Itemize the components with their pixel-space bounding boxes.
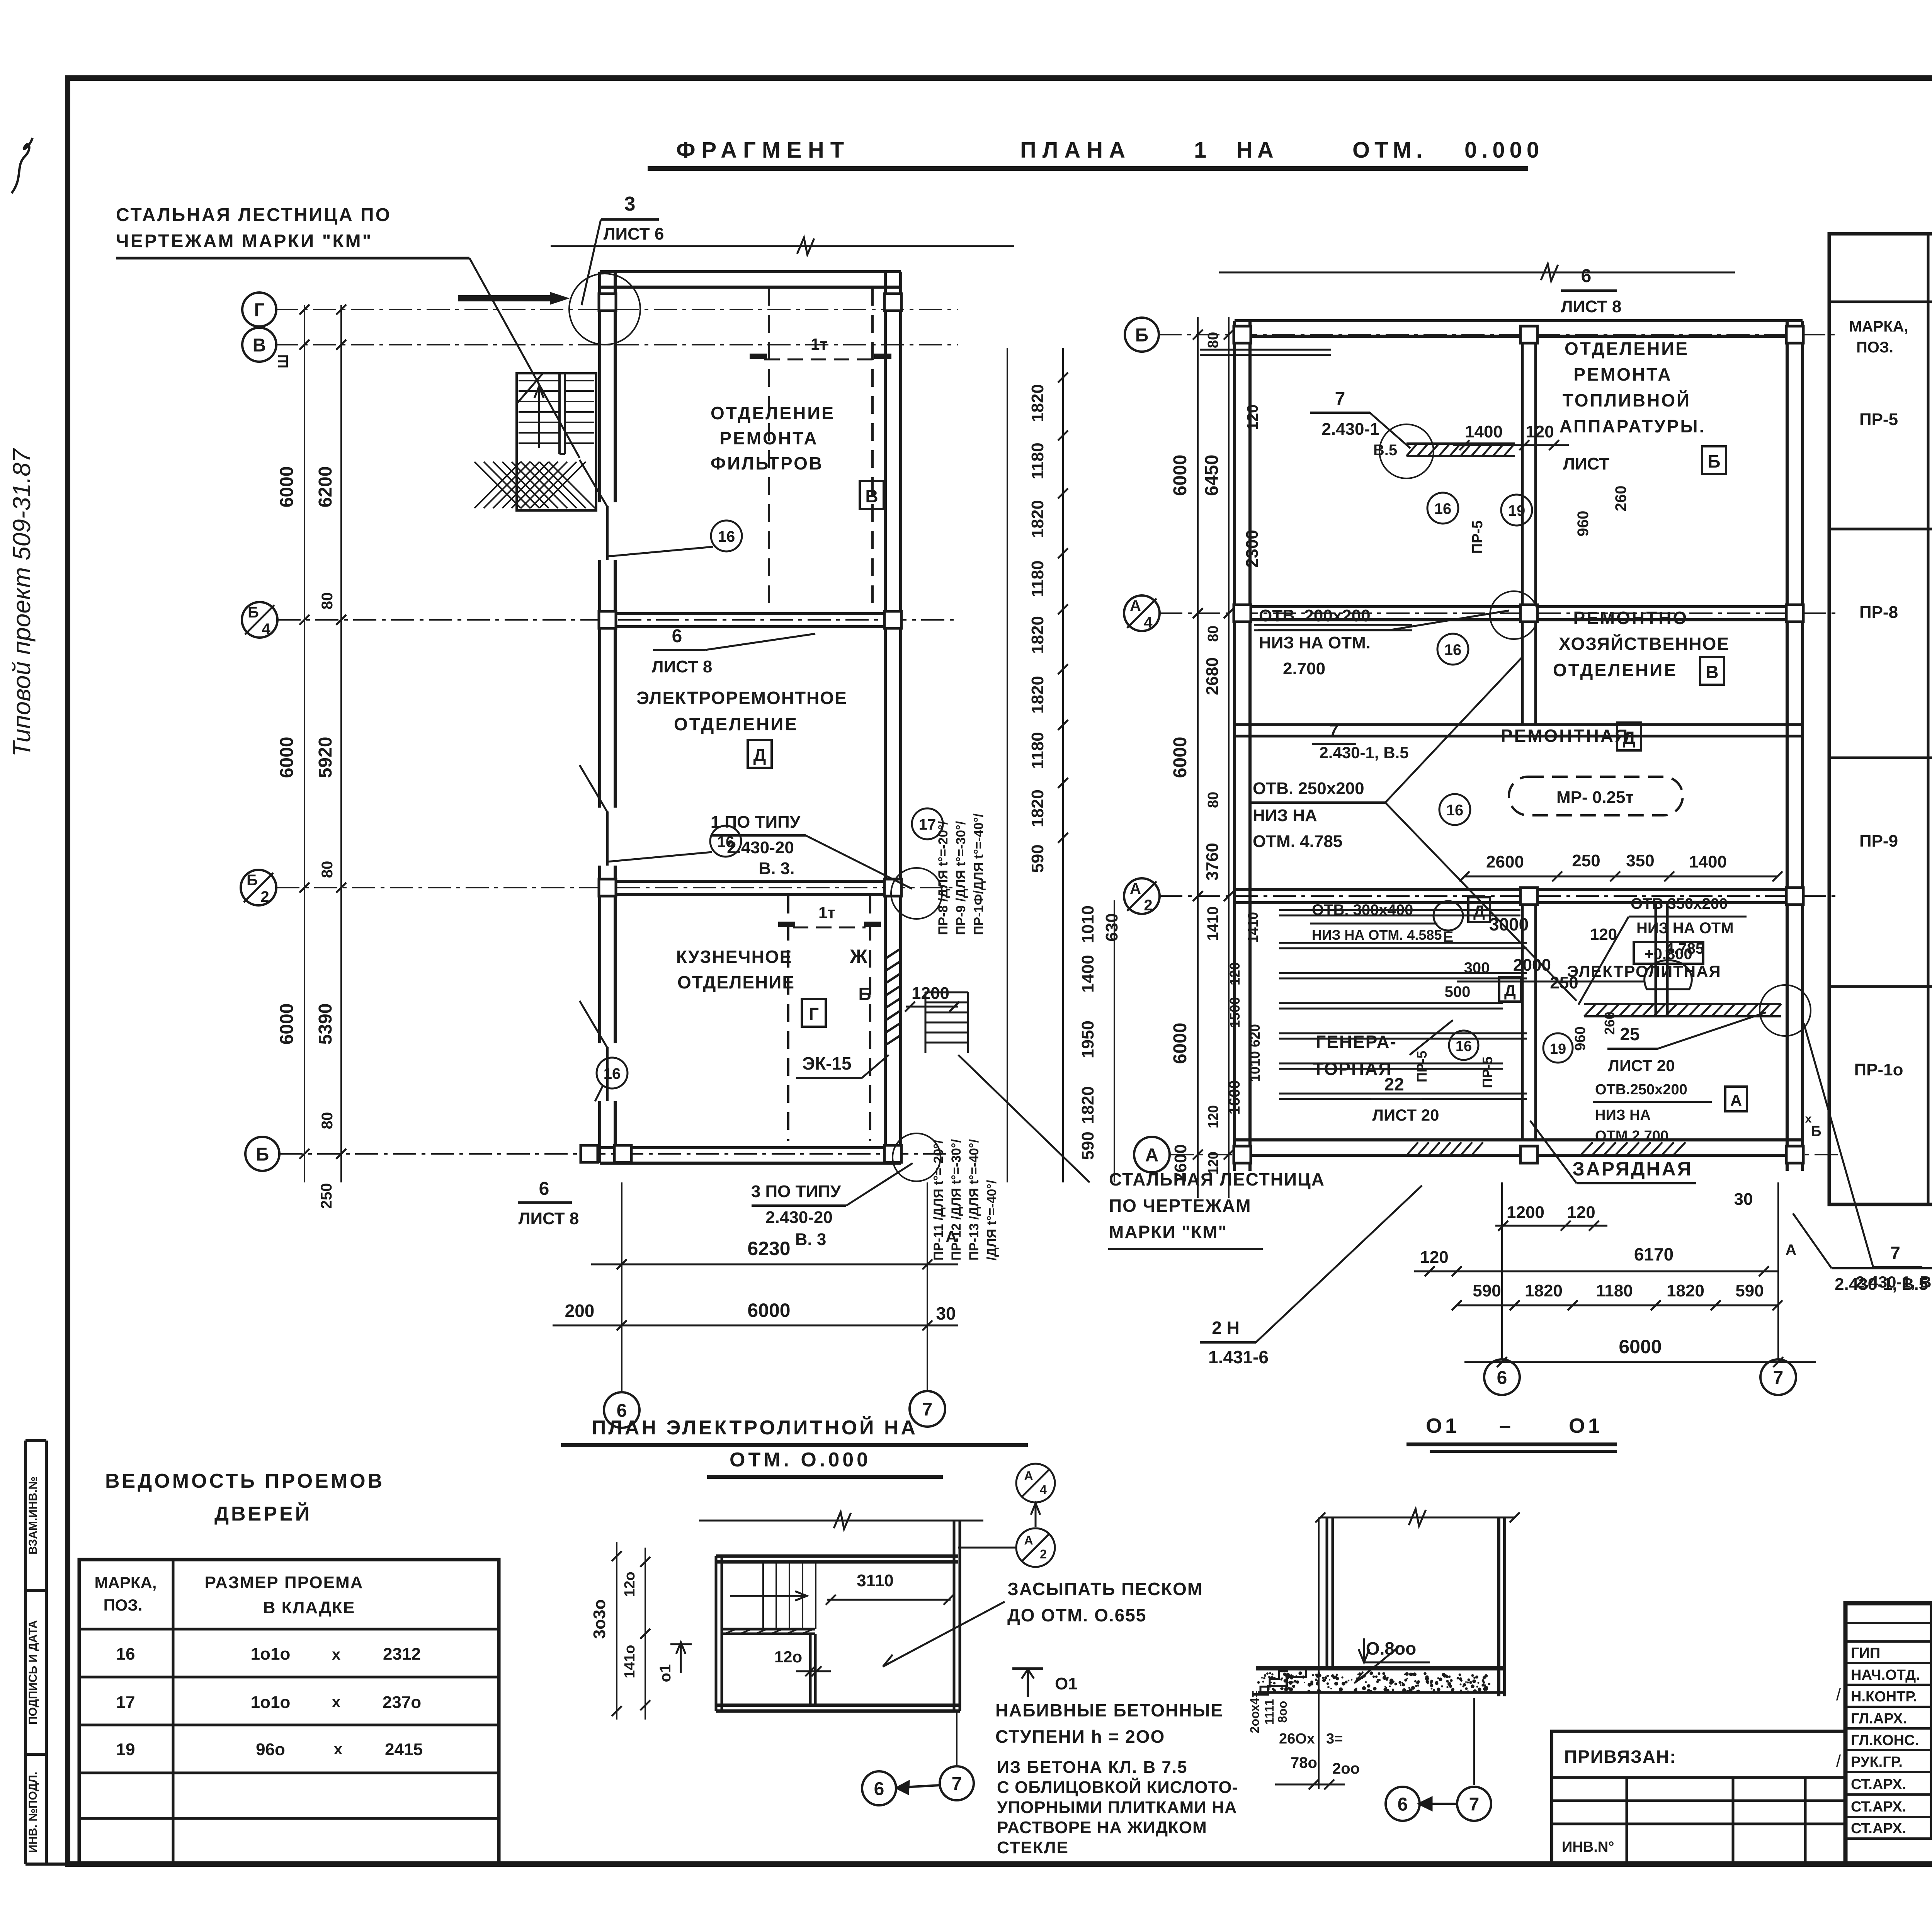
svg-text:Б: Б xyxy=(1708,451,1720,471)
boxed D second lower xyxy=(1499,977,1521,1002)
svg-text:В: В xyxy=(1706,662,1718,682)
svg-text:350: 350 xyxy=(1626,851,1654,870)
svg-text:2415: 2415 xyxy=(385,1740,423,1759)
section vertical dim line xyxy=(1318,1517,1320,1789)
svg-text:2 Н: 2 Н xyxy=(1212,1318,1240,1338)
svg-text:2: 2 xyxy=(1144,897,1152,914)
svg-text:78о: 78о xyxy=(1291,1754,1317,1771)
svg-text:2000: 2000 xyxy=(1513,956,1551,975)
svg-text:КУЗНЕЧНОЕ: КУЗНЕЧНОЕ xyxy=(676,947,793,967)
door circle 16 generator xyxy=(1449,1031,1478,1060)
svg-text:РЕМОНТНАЯ: РЕМОНТНАЯ xyxy=(1501,726,1629,746)
svg-text:1410: 1410 xyxy=(1245,912,1261,943)
svg-text:ТОРНАЯ: ТОРНАЯ xyxy=(1313,1059,1392,1079)
svg-text:х: х xyxy=(1805,1112,1812,1125)
leader from zasypat text to plan xyxy=(885,1602,1005,1665)
svg-text:12о: 12о xyxy=(774,1648,802,1666)
door table frame xyxy=(79,1560,499,1864)
svg-text:3=: 3= xyxy=(1326,1731,1343,1747)
svg-text:ПЛАНА: ПЛАНА xyxy=(1020,138,1131,163)
leader from callout to wall xyxy=(846,1163,913,1206)
svg-text:1820: 1820 xyxy=(1028,676,1047,714)
svg-text:ЛИСТ 20: ЛИСТ 20 xyxy=(1608,1056,1675,1075)
axis circle V xyxy=(242,328,276,362)
svg-text:ЛИСТ 8: ЛИСТ 8 xyxy=(1561,297,1622,316)
svg-text:ЧЕРТЕЖАМ МАРКИ "КМ": ЧЕРТЕЖАМ МАРКИ "КМ" xyxy=(116,231,372,252)
svg-text:2оо: 2оо xyxy=(1332,1760,1360,1777)
axis line A2 right plan xyxy=(1159,895,1839,897)
level mark +0.800 boxed xyxy=(1634,942,1703,964)
svg-text:16: 16 xyxy=(1444,641,1462,658)
leader otv350 to wall xyxy=(1578,917,1629,1005)
electro plan stair treads xyxy=(763,1562,816,1629)
svg-text:7: 7 xyxy=(1773,1368,1784,1388)
room letter box G xyxy=(802,999,826,1027)
svg-text:2оох4=: 2оох4= xyxy=(1248,1691,1262,1733)
svg-text:ГИП: ГИП xyxy=(1851,1645,1880,1661)
electro plan outer walls xyxy=(716,1555,958,1558)
svg-text:ИНВ. №ПОДЛ.: ИНВ. №ПОДЛ. xyxy=(27,1772,39,1853)
svg-text:16: 16 xyxy=(604,1065,621,1082)
electro left dims xyxy=(616,1542,617,1720)
svg-text:В. 3: В. 3 xyxy=(795,1230,827,1249)
privyazan table frame xyxy=(1552,1731,1845,1864)
svg-text:6: 6 xyxy=(874,1779,884,1799)
svg-text:1820: 1820 xyxy=(1667,1281,1704,1300)
section mark A4 circle xyxy=(1016,1464,1055,1502)
leader from otv callout xyxy=(1391,611,1509,630)
svg-text:1т: 1т xyxy=(818,903,835,922)
detail circle at right wall B2 xyxy=(891,868,942,919)
detail circle right end electro wall xyxy=(1760,985,1811,1036)
svg-text:6: 6 xyxy=(672,626,682,646)
room letter box D right plan xyxy=(1617,723,1641,750)
svg-text:30: 30 xyxy=(936,1303,956,1323)
svg-text:Б: Б xyxy=(247,872,258,889)
svg-text:3000: 3000 xyxy=(1489,914,1529,934)
svg-text:17: 17 xyxy=(116,1693,135,1712)
room letter box V xyxy=(860,481,884,509)
svg-text:120: 120 xyxy=(1420,1248,1448,1267)
section stepped left profile xyxy=(1252,1668,1327,1694)
svg-text:8оо: 8оо xyxy=(1276,1701,1289,1723)
svg-text:ПОЗ.: ПОЗ. xyxy=(1856,339,1893,356)
leader from callout to right wall xyxy=(806,835,912,889)
svg-text:ТОПЛИВНОЙ: ТОПЛИВНОЙ xyxy=(1563,390,1691,410)
stair pit hatched area xyxy=(474,462,595,508)
svg-text:Д: Д xyxy=(753,745,766,765)
left plan interior wall on axis B4 xyxy=(600,612,901,615)
svg-text:2300: 2300 xyxy=(1243,530,1262,568)
svg-text:СТЕКЛЕ: СТЕКЛЕ xyxy=(997,1838,1069,1857)
svg-text:ОТМ.2.700: ОТМ.2.700 xyxy=(1595,1128,1668,1144)
detail circle bottom right wall xyxy=(893,1133,940,1181)
section mark A2 circle xyxy=(1016,1528,1055,1567)
svg-text:80: 80 xyxy=(319,1112,336,1129)
bottom dim line 6000 left plan xyxy=(553,1325,958,1327)
svg-text:НИЗ НА ОТМ: НИЗ НА ОТМ xyxy=(1636,920,1734,937)
svg-text:590: 590 xyxy=(1028,844,1047,873)
svg-text:6000: 6000 xyxy=(747,1300,790,1321)
svg-text:1410: 1410 xyxy=(1204,907,1221,941)
svg-text:Г: Г xyxy=(254,300,264,320)
svg-text:1180: 1180 xyxy=(1596,1281,1633,1300)
svg-text:1950: 1950 xyxy=(1078,1021,1097,1058)
leader generator room xyxy=(1410,1020,1453,1055)
right plan interior wall below A4 xyxy=(1235,723,1803,726)
lintel table 1 frame xyxy=(1829,234,1932,1204)
svg-text:1400: 1400 xyxy=(1689,852,1727,871)
svg-text:960: 960 xyxy=(1575,511,1592,537)
stair treads right flight xyxy=(565,381,594,443)
stair divider wall xyxy=(558,373,561,454)
svg-text:6000: 6000 xyxy=(1619,1336,1662,1357)
svg-text:80: 80 xyxy=(1205,792,1221,808)
svg-text:Д: Д xyxy=(1473,902,1485,920)
svg-text:С ОБЛИЦОВКОЙ КИСЛОТО-: С ОБЛИЦОВКОЙ КИСЛОТО- xyxy=(997,1777,1238,1797)
section stair steps small xyxy=(1252,1671,1288,1694)
svg-text:1180: 1180 xyxy=(1028,442,1047,479)
leader from section mark into plan xyxy=(958,1547,1016,1549)
svg-text:19: 19 xyxy=(1508,502,1526,519)
svg-text:СТ.АРХ.: СТ.АРХ. xyxy=(1851,1799,1906,1815)
svg-text:120: 120 xyxy=(1590,925,1617,943)
svg-text:РЕМОНТА: РЕМОНТА xyxy=(719,428,818,448)
svg-text:ОТМ. О.000: ОТМ. О.000 xyxy=(730,1449,871,1471)
dashed partition room V xyxy=(768,288,770,612)
svg-text:СТ.АРХ.: СТ.АРХ. xyxy=(1851,1820,1906,1837)
detail circle at stair landing xyxy=(569,274,640,345)
svg-text:1010: 1010 xyxy=(1078,905,1097,943)
leader zaryadnaya xyxy=(1530,1121,1577,1183)
svg-text:7: 7 xyxy=(922,1399,933,1420)
left dim lines right plan xyxy=(1197,317,1199,1198)
svg-text:26Ох: 26Ох xyxy=(1279,1731,1315,1747)
svg-text:80: 80 xyxy=(1205,332,1221,348)
partition electrolitnaya room xyxy=(1655,903,1657,1016)
svg-text:500: 500 xyxy=(1445,983,1471,1000)
svg-text:3о3о: 3о3о xyxy=(590,1599,609,1639)
svg-text:2.430-20: 2.430-20 xyxy=(765,1208,833,1227)
axis bubble 7 left plan xyxy=(910,1391,945,1427)
axis circle A over 2 xyxy=(1124,878,1160,914)
svg-text:ИЗ БЕТОНА КЛ. В 7.5: ИЗ БЕТОНА КЛ. В 7.5 xyxy=(997,1758,1188,1777)
room letter box D xyxy=(748,740,772,768)
svg-text:96о: 96о xyxy=(256,1740,285,1759)
svg-text:0.000: 0.000 xyxy=(1464,138,1544,163)
svg-text:УПОРНЫМИ ПЛИТКАМИ НА: УПОРНЫМИ ПЛИТКАМИ НА xyxy=(997,1798,1237,1817)
svg-text:Ж: Ж xyxy=(849,946,867,967)
svg-text:/ДЛЯ t°=-40°/: /ДЛЯ t°=-40°/ xyxy=(985,1180,999,1260)
svg-text:3110: 3110 xyxy=(857,1571,893,1590)
svg-text:590: 590 xyxy=(1735,1281,1764,1300)
svg-text:ПР-5: ПР-5 xyxy=(1480,1056,1495,1088)
svg-text:1180: 1180 xyxy=(1028,560,1047,597)
svg-text:НИЗ НА: НИЗ НА xyxy=(1253,806,1317,825)
svg-text:4: 4 xyxy=(1040,1483,1047,1497)
svg-text:о1: о1 xyxy=(657,1664,674,1682)
right plan central vertical partition lower xyxy=(1521,903,1524,1140)
svg-text:2312: 2312 xyxy=(383,1645,421,1664)
svg-text:МАРКА,: МАРКА, xyxy=(1849,318,1908,335)
svg-text:НАЧ.ОТД.: НАЧ.ОТД. xyxy=(1851,1667,1920,1683)
svg-text:2600: 2600 xyxy=(1486,852,1524,871)
svg-text:ГЛ.КОНС.: ГЛ.КОНС. xyxy=(1851,1732,1919,1749)
svg-text:4: 4 xyxy=(1144,614,1153,631)
svg-text:А: А xyxy=(1730,1091,1742,1109)
left dimension line for axis spacing xyxy=(304,305,305,1182)
double lines below A4 xyxy=(1254,624,1412,626)
mark T01 symbol xyxy=(1012,1667,1043,1670)
outside stair right of forge room xyxy=(925,992,968,1043)
door gaps in left wall xyxy=(597,502,618,560)
svg-text:ОТВ. 200х200: ОТВ. 200х200 xyxy=(1259,606,1371,625)
svg-text:ПР-8 /ДЛЯ t°=-20°/: ПР-8 /ДЛЯ t°=-20°/ xyxy=(936,821,951,935)
left plan right wall xyxy=(884,272,887,1163)
section top dim line xyxy=(1320,1517,1515,1519)
svg-text:ПР-9: ПР-9 xyxy=(1859,832,1898,850)
svg-text:Ш: Ш xyxy=(275,354,291,368)
svg-text:1: 1 xyxy=(1194,138,1206,163)
svg-text:237о: 237о xyxy=(383,1693,421,1712)
leader from far right callout xyxy=(1804,1023,1873,1267)
svg-text:1 ПО ТИПУ: 1 ПО ТИПУ xyxy=(711,813,801,832)
detail circle at A4 partition xyxy=(1490,591,1538,639)
svg-text:6200: 6200 xyxy=(315,466,336,508)
svg-text:1820: 1820 xyxy=(1028,616,1047,654)
svg-text:О1: О1 xyxy=(1569,1414,1603,1437)
svg-text:1820: 1820 xyxy=(1078,1086,1097,1124)
svg-text:141о: 141о xyxy=(622,1645,638,1679)
section right wall xyxy=(1497,1517,1500,1696)
svg-text:2.430-20: 2.430-20 xyxy=(727,838,794,857)
svg-text:630: 630 xyxy=(1102,913,1121,941)
svg-text:120: 120 xyxy=(1526,422,1554,441)
leader from 2n to plan corner xyxy=(1256,1186,1422,1342)
svg-text:О1: О1 xyxy=(1426,1414,1460,1437)
svg-text:6450: 6450 xyxy=(1202,455,1222,496)
leader from note to stair xyxy=(469,258,580,458)
svg-text:2600: 2600 xyxy=(1171,1144,1190,1182)
axis line V xyxy=(275,344,958,345)
double lines above A2 room xyxy=(1279,909,1520,911)
arrow between section marks xyxy=(1035,1505,1037,1527)
leader into sand fill xyxy=(1356,1647,1399,1682)
leader 25 to detail circle xyxy=(1658,1012,1766,1049)
extension to circles electro xyxy=(956,1713,957,1765)
svg-text:1820: 1820 xyxy=(1028,500,1047,538)
svg-text:ПР-5: ПР-5 xyxy=(1414,1051,1430,1082)
svg-text:МАРКА,: МАРКА, xyxy=(95,1573,157,1592)
upper double lines near axis B xyxy=(1200,349,1331,351)
svg-text:80: 80 xyxy=(319,861,336,878)
boxed A label xyxy=(1725,1087,1747,1111)
svg-text:5390: 5390 xyxy=(315,1004,336,1045)
svg-text:НАБИВНЫЕ БЕТОННЫЕ: НАБИВНЫЕ БЕТОННЫЕ xyxy=(995,1700,1223,1720)
svg-text:120: 120 xyxy=(1567,1203,1595,1222)
svg-text:ФИЛЬТРОВ: ФИЛЬТРОВ xyxy=(711,453,823,473)
right plan right wall xyxy=(1786,321,1789,1171)
monorail 1t dashed in forge room xyxy=(793,927,866,929)
title block row lines left part xyxy=(1845,1622,1932,1624)
svg-text:ЭК-15: ЭК-15 xyxy=(802,1053,851,1073)
note underline xyxy=(116,257,469,260)
leader lines from door circles to doors xyxy=(607,547,713,556)
stair corner triangle xyxy=(517,373,543,404)
svg-text:ЭЛЕКТРОРЕМОНТНОЕ: ЭЛЕКТРОРЕМОНТНОЕ xyxy=(636,688,847,708)
svg-text:ПР-13 /ДЛЯ t°=-40°/: ПР-13 /ДЛЯ t°=-40°/ xyxy=(967,1139,981,1260)
svg-text:ДО ОТМ. О.655: ДО ОТМ. О.655 xyxy=(1007,1605,1146,1625)
svg-text:6000: 6000 xyxy=(277,1004,297,1045)
svg-text:2: 2 xyxy=(1040,1547,1047,1561)
louvre lines generator room xyxy=(1279,943,1527,1099)
svg-text:260: 260 xyxy=(1612,486,1629,512)
svg-text:ОТМ. 4.785: ОТМ. 4.785 xyxy=(1253,832,1342,851)
stairwell outside top-left xyxy=(517,373,596,510)
svg-text:СТАЛЬНАЯ ЛЕСТНИЦА ПО: СТАЛЬНАЯ ЛЕСТНИЦА ПО xyxy=(116,205,391,225)
svg-text:х: х xyxy=(334,1741,342,1758)
axis bubble 6 left plan xyxy=(604,1392,639,1428)
right plan central vertical partition upper xyxy=(1521,336,1524,725)
svg-text:7: 7 xyxy=(952,1774,962,1794)
svg-text:120: 120 xyxy=(1205,1105,1221,1128)
svg-text:960: 960 xyxy=(1572,1026,1588,1051)
svg-text:ОТВ. 300х400: ОТВ. 300х400 xyxy=(1312,902,1413,919)
svg-text:ОТДЕЛЕНИЕ: ОТДЕЛЕНИЕ xyxy=(711,403,835,423)
svg-text:6000: 6000 xyxy=(1170,1023,1190,1064)
door circle 16 middle right plan xyxy=(1439,794,1470,825)
svg-text:ПОДПИСЬ И ДАТА: ПОДПИСЬ И ДАТА xyxy=(27,1620,39,1725)
svg-text:3 ПО ТИПУ: 3 ПО ТИПУ xyxy=(751,1182,841,1201)
axis line G xyxy=(275,309,958,310)
svg-text:ПР-5: ПР-5 xyxy=(1469,520,1486,554)
svg-text:6000: 6000 xyxy=(1170,455,1190,496)
left margin stamp strip xyxy=(24,1441,27,1864)
right-side dimension chain lines of left plan xyxy=(1007,348,1008,1182)
circled 7 under section xyxy=(1457,1787,1491,1821)
svg-text:ПРИВЯЗАН:: ПРИВЯЗАН: xyxy=(1564,1747,1677,1767)
svg-text:6170: 6170 xyxy=(1634,1244,1673,1264)
svg-text:7: 7 xyxy=(1469,1794,1480,1815)
svg-text:ОТВ. 250х200: ОТВ. 250х200 xyxy=(1253,779,1364,798)
svg-text:Б: Б xyxy=(858,984,871,1004)
svg-text:5920: 5920 xyxy=(315,737,336,778)
svg-text:250: 250 xyxy=(318,1183,335,1209)
electro interior wall vertical xyxy=(809,1634,812,1705)
svg-text:200: 200 xyxy=(565,1301,595,1321)
svg-text:Г: Г xyxy=(809,1004,819,1024)
svg-text:ОТДЕЛЕНИЕ: ОТДЕЛЕНИЕ xyxy=(1565,338,1689,359)
axis circle A over 4 xyxy=(1124,595,1160,631)
svg-text:А: А xyxy=(1130,597,1141,614)
axis circle B over 4 xyxy=(242,602,277,638)
right plan interior wall A4 xyxy=(1235,605,1803,608)
extension line to circle 7 section xyxy=(1473,1698,1475,1785)
svg-text:16: 16 xyxy=(1434,500,1452,517)
svg-text:6: 6 xyxy=(539,1179,549,1199)
svg-text:3760: 3760 xyxy=(1203,843,1222,881)
door circle 16 lower area xyxy=(1434,901,1463,930)
svg-text:16: 16 xyxy=(1456,1038,1472,1055)
svg-text:6: 6 xyxy=(1497,1368,1507,1388)
svg-text:6000: 6000 xyxy=(277,466,297,508)
svg-text:2.430-1: 2.430-1 xyxy=(1321,420,1379,439)
svg-text:АППАРАТУРЫ.: АППАРАТУРЫ. xyxy=(1560,416,1706,436)
svg-text:НИЗ НА ОТМ. 4.585: НИЗ НА ОТМ. 4.585 xyxy=(1312,927,1442,943)
svg-text:12о: 12о xyxy=(622,1572,638,1597)
svg-text:/: / xyxy=(1836,1685,1841,1704)
svg-text:ЗАСЫПАТЬ ПЕСКОМ: ЗАСЫПАТЬ ПЕСКОМ xyxy=(1007,1579,1203,1599)
svg-text:16: 16 xyxy=(718,528,735,545)
svg-text:В: В xyxy=(253,335,266,356)
svg-text:Б: Б xyxy=(1811,1123,1821,1140)
door mark circle 16 lower xyxy=(597,1058,628,1089)
handwritten squiggle top left margin xyxy=(12,138,32,193)
svg-text:ОТДЕЛЕНИЕ: ОТДЕЛЕНИЕ xyxy=(677,972,795,992)
arrow 7 to 6 under section xyxy=(1421,1803,1458,1805)
svg-text:16: 16 xyxy=(116,1645,135,1664)
svg-text:ВЗАМ.ИНВ.№: ВЗАМ.ИНВ.№ xyxy=(27,1476,39,1555)
svg-text:А: А xyxy=(1024,1469,1033,1483)
hatched pier segment on right wall xyxy=(885,949,901,1045)
detail circle at lintel PR-5 xyxy=(1379,424,1434,478)
axis circle B xyxy=(245,1137,279,1171)
svg-text:7: 7 xyxy=(1335,389,1345,409)
boxed D label lower xyxy=(1468,897,1490,922)
leader from callout 3 xyxy=(582,219,601,305)
svg-text:РЕМОНТА: РЕМОНТА xyxy=(1573,364,1672,384)
svg-text:РУК.ГР.: РУК.ГР. xyxy=(1851,1754,1903,1770)
svg-text:7: 7 xyxy=(1329,721,1338,740)
left plan left wall xyxy=(598,272,601,1163)
svg-text:ГЛ.АРХ.: ГЛ.АРХ. xyxy=(1851,1711,1907,1727)
svg-text:ПР-1о: ПР-1о xyxy=(1854,1060,1903,1079)
svg-text:ПО ЧЕРТЕЖАМ: ПО ЧЕРТЕЖАМ xyxy=(1109,1196,1252,1216)
svg-text:х: х xyxy=(332,1694,340,1711)
svg-text:2.430-1, В.5: 2.430-1, В.5 xyxy=(1319,743,1408,762)
section left wall xyxy=(1326,1517,1328,1668)
axis circle A right plan xyxy=(1134,1137,1170,1172)
svg-text:МАРКИ "КМ": МАРКИ "КМ" xyxy=(1109,1222,1227,1242)
svg-text:1820: 1820 xyxy=(1525,1281,1563,1300)
svg-text:ЛИСТ 8: ЛИСТ 8 xyxy=(652,657,713,676)
right plan top wall xyxy=(1235,319,1803,322)
svg-text:ОТВ.250х200: ОТВ.250х200 xyxy=(1595,1082,1687,1098)
axis line A4 right plan xyxy=(1159,612,1839,614)
door mark circle 16 middle xyxy=(710,826,741,857)
axis circle B right plan xyxy=(1125,318,1159,352)
svg-text:1400: 1400 xyxy=(1465,422,1503,441)
svg-text:590: 590 xyxy=(1473,1281,1501,1300)
svg-text:ЛИСТ: ЛИСТ xyxy=(1563,454,1609,473)
pier squares at axis intersections xyxy=(599,294,616,311)
door circle 19 generator xyxy=(1543,1033,1573,1063)
svg-text:ПОЗ.: ПОЗ. xyxy=(104,1596,143,1614)
hatched wall electrolitnaya bottom xyxy=(1584,1004,1781,1016)
svg-text:Н.КОНТР.: Н.КОНТР. xyxy=(1851,1689,1917,1705)
svg-text:1.431-6: 1.431-6 xyxy=(1208,1347,1269,1367)
title block outer frame xyxy=(1845,1603,1932,1864)
electrolitnaya tub symbol xyxy=(1645,960,1692,989)
circled 7 under electro plan xyxy=(940,1766,974,1800)
electro stair arrow xyxy=(730,1595,806,1597)
svg-text:1111: 1111 xyxy=(1262,1699,1276,1725)
leader below table1 xyxy=(1793,1213,1832,1268)
svg-text:/: / xyxy=(1836,1752,1841,1771)
svg-text:ГЕНЕРА-: ГЕНЕРА- xyxy=(1316,1032,1397,1052)
svg-text:О1: О1 xyxy=(1055,1674,1078,1693)
svg-text:А: А xyxy=(946,1228,957,1246)
